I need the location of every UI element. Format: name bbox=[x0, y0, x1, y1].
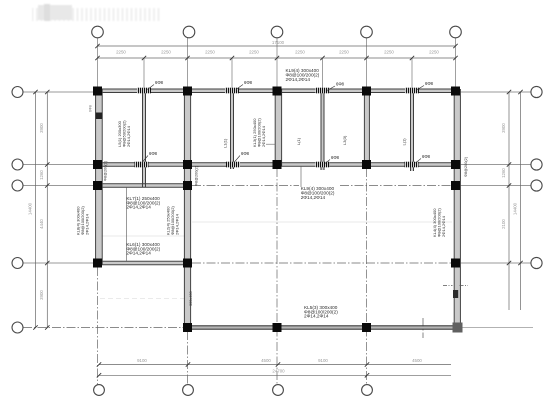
beam axis 5 (KL4) bbox=[454, 89, 460, 329]
secondary beam S3 extension bbox=[322, 58, 324, 89]
svg-text:2250: 2250 bbox=[161, 50, 171, 55]
leader KL3 to axis3 bbox=[266, 143, 275, 145]
svg-text:L3(3): L3(3) bbox=[342, 135, 347, 145]
rotated text KL2 bbox=[166, 206, 180, 235]
beam infill gray bbox=[93, 89, 460, 329]
svg-text:2Φ14,2Φ14: 2Φ14,2Φ14 bbox=[261, 125, 266, 147]
top dimension line overall bbox=[98, 46, 456, 58]
axis 3 top extension bbox=[276, 38, 278, 89]
svg-text:2Φ14,2Φ14: 2Φ14,2Φ14 bbox=[175, 213, 180, 235]
rotated text L5 bay1 bbox=[117, 120, 131, 147]
secondary beam S1 (L5) bbox=[143, 89, 146, 187]
secondary beam S4 extension bbox=[411, 58, 413, 89]
section mark on row E beam bbox=[422, 318, 424, 338]
svg-text:6Φ8: 6Φ8 bbox=[331, 155, 340, 160]
column D1 bbox=[93, 259, 102, 268]
axis 4 center line lower bbox=[366, 168, 368, 385]
row bubble A right bbox=[531, 86, 542, 97]
row D center line bbox=[192, 262, 452, 264]
top dimension ticks bbox=[95, 44, 457, 60]
svg-text:17100: 17100 bbox=[272, 40, 285, 45]
axis 1 center line lower bbox=[97, 267, 99, 385]
row bubble A left bbox=[12, 87, 23, 98]
secondary beam S1 extension bbox=[143, 58, 145, 89]
leader line text KL9b bbox=[300, 166, 302, 187]
axis bubble 1 bottom bbox=[94, 385, 105, 396]
stirrup cluster row B at S4 bbox=[405, 162, 419, 168]
svg-text:2Φ14,2Φ14: 2Φ14,2Φ14 bbox=[304, 314, 329, 319]
axis bubble 5 top bbox=[450, 26, 462, 38]
6phi8 label A-S1 bbox=[142, 80, 434, 164]
svg-text:9100: 9100 bbox=[318, 358, 328, 363]
leader line text KL7 bbox=[126, 187, 128, 261]
svg-text:4500: 4500 bbox=[261, 358, 271, 363]
column D2 bbox=[183, 259, 192, 268]
axis bubble 1 top bbox=[92, 26, 104, 38]
axis 4 top extension bbox=[366, 38, 368, 89]
axis 5 top extension bbox=[455, 38, 457, 89]
column A5 bbox=[451, 87, 460, 96]
svg-text:6Φ8: 6Φ8 bbox=[241, 151, 250, 156]
beam row B bbox=[93, 163, 460, 166]
rotated text KL4 bbox=[432, 208, 446, 237]
svg-text:2Φ14,2Φ14: 2Φ14,2Φ14 bbox=[85, 213, 90, 235]
faint slab line bottom-left bbox=[100, 298, 185, 300]
svg-text:6Φ8: 6Φ8 bbox=[244, 80, 253, 85]
stirrup cluster row A at S2 bbox=[225, 88, 239, 94]
section mark axis5 between D-E bbox=[443, 285, 468, 287]
svg-text:2Φ14,2Φ14: 2Φ14,2Φ14 bbox=[126, 205, 151, 210]
svg-text:2250: 2250 bbox=[249, 50, 259, 55]
axis 2 top extension bbox=[187, 38, 189, 89]
faint slab line left bay bbox=[99, 235, 186, 237]
beam axis 3 bbox=[275, 89, 281, 166]
row C right extension bbox=[459, 185, 531, 187]
stirrup cluster axis5 beam bbox=[453, 290, 458, 298]
secondary beam S3 (L3) bbox=[321, 89, 324, 170]
column A2 bbox=[183, 87, 192, 96]
left bay dim texts bbox=[28, 123, 45, 300]
text KL6 bbox=[126, 242, 160, 256]
dash-dot center lines bbox=[23, 168, 452, 385]
text KL7 bbox=[126, 196, 160, 210]
row C center line right segment bbox=[340, 185, 452, 187]
gray column E5 bbox=[453, 323, 463, 333]
axis bubble 2 bottom bbox=[183, 385, 194, 396]
beam axis 4 bbox=[364, 89, 369, 166]
axis bubble 2 top bbox=[183, 26, 195, 38]
beam row A (KL9) bbox=[93, 89, 460, 93]
bottom dimension line overall bbox=[99, 374, 451, 376]
row D left extension bbox=[23, 262, 94, 264]
stirrup cluster row B at S1 bbox=[135, 162, 149, 168]
row bubble B left bbox=[12, 159, 23, 170]
svg-text:2Φ14,2Φ14: 2Φ14,2Φ14 bbox=[301, 195, 326, 200]
axis 2 center line lower bbox=[187, 331, 189, 385]
text KL9 mid bbox=[301, 186, 335, 200]
svg-text:3900: 3900 bbox=[39, 123, 44, 133]
svg-text:2Φ14,2Φ14: 2Φ14,2Φ14 bbox=[441, 215, 446, 237]
svg-text:14400: 14400 bbox=[513, 202, 518, 215]
column A3 bbox=[273, 87, 282, 96]
column C5 bbox=[451, 181, 460, 190]
column A1 bbox=[93, 87, 102, 96]
beam row E (KL5) bbox=[183, 326, 460, 329]
text KL5 bbox=[304, 305, 338, 319]
stirrup cluster row A at S3 bbox=[316, 88, 330, 94]
row bubble E left bbox=[12, 322, 23, 333]
svg-text:2Φ14,2Φ14: 2Φ14,2Φ14 bbox=[126, 251, 151, 256]
stirrup cluster axis1 beam bbox=[96, 113, 103, 120]
row A right extension bbox=[459, 91, 531, 93]
column B5 bbox=[451, 160, 460, 169]
column C2 bbox=[183, 181, 192, 190]
row E right faint line bbox=[462, 327, 533, 329]
svg-text:2250: 2250 bbox=[429, 50, 439, 55]
svg-text:L1(1): L1(1) bbox=[223, 138, 228, 148]
svg-text:300x400: 300x400 bbox=[189, 291, 193, 306]
axis bubble 4 top bbox=[361, 26, 373, 38]
axis 3 center line lower bbox=[276, 168, 278, 385]
row bubble D left bbox=[12, 258, 23, 269]
svg-text:3900: 3900 bbox=[39, 290, 44, 300]
row bubble C right bbox=[531, 180, 542, 191]
row E center line left bbox=[23, 327, 183, 329]
beam axis 1 (KL8) bbox=[96, 89, 103, 265]
top dimension line bays bbox=[98, 57, 456, 59]
row bubble D right bbox=[531, 257, 542, 268]
stirrup cluster row B at S2 bbox=[226, 162, 240, 168]
right dimension ticks bbox=[507, 90, 523, 265]
beam axis 2 (KL2) bbox=[184, 89, 190, 329]
svg-text:6Φ8: 6Φ8 bbox=[422, 154, 431, 159]
svg-text:Φ8@200(2): Φ8@200(2) bbox=[104, 160, 108, 181]
stirrup cluster row A at S4 bbox=[405, 88, 419, 94]
column B2 bbox=[183, 160, 192, 169]
axis 1 top extension bbox=[97, 38, 99, 89]
rotated text KL3 bay3 bbox=[252, 118, 266, 147]
right bay dim texts bbox=[501, 123, 518, 229]
svg-text:2Φ14,2Φ14: 2Φ14,2Φ14 bbox=[126, 125, 131, 147]
left dimension ticks bbox=[33, 90, 49, 330]
beam row C (KL7) bbox=[93, 184, 192, 187]
column E4 bbox=[362, 323, 371, 332]
secondary beam S4 (L) bbox=[411, 89, 414, 171]
beams double lines bbox=[93, 89, 460, 329]
right dimension line bays bbox=[509, 92, 521, 310]
svg-text:1260: 1260 bbox=[501, 168, 506, 178]
axis bubble 4 bottom bbox=[362, 385, 373, 396]
svg-text:3900: 3900 bbox=[501, 123, 506, 133]
svg-text:6Φ8: 6Φ8 bbox=[149, 151, 158, 156]
column B3 bbox=[273, 160, 282, 169]
svg-text:2250: 2250 bbox=[116, 50, 126, 55]
secondary beam S2 extension bbox=[231, 58, 233, 89]
svg-text:2250: 2250 bbox=[205, 50, 215, 55]
row C left extension bbox=[23, 185, 94, 187]
left dimension line overall bbox=[36, 92, 48, 328]
row B left extension bbox=[23, 164, 94, 166]
svg-text:4440: 4440 bbox=[39, 219, 44, 229]
row bubble C left bbox=[12, 180, 23, 191]
row D right extension bbox=[459, 262, 531, 264]
svg-text:2100: 2100 bbox=[501, 219, 506, 229]
top bay dim texts bbox=[116, 50, 439, 55]
svg-text:L(1): L(1) bbox=[296, 137, 301, 145]
svg-text:6Φ8: 6Φ8 bbox=[336, 82, 345, 87]
svg-text:6Φ8: 6Φ8 bbox=[155, 80, 164, 85]
right dimension line overall bbox=[520, 92, 522, 310]
column B4 bbox=[362, 160, 371, 169]
column C1 bbox=[93, 181, 102, 190]
svg-text:2250: 2250 bbox=[339, 50, 349, 55]
rotated text KL8 bbox=[76, 206, 90, 235]
row bubble B right bbox=[531, 159, 542, 170]
beam row D (KL6) bbox=[93, 261, 192, 264]
svg-text:9100: 9100 bbox=[137, 358, 147, 363]
bottom bay dim texts bbox=[137, 358, 422, 363]
stirrup cluster row A at S1 bbox=[137, 88, 151, 94]
svg-text:1260: 1260 bbox=[39, 170, 44, 180]
axis bubble 3 bottom bbox=[273, 385, 284, 396]
column B1 bbox=[93, 160, 102, 169]
left dimension line bays bbox=[46, 92, 48, 328]
svg-text:4500: 4500 bbox=[412, 358, 422, 363]
column E2 bbox=[183, 323, 192, 332]
text KL9 top bbox=[286, 68, 320, 82]
svg-text:24700: 24700 bbox=[272, 369, 285, 374]
column E3 bbox=[273, 323, 282, 332]
row B right extension bbox=[459, 164, 531, 166]
column D5 bbox=[451, 259, 460, 268]
svg-text:Φ8@200(2): Φ8@200(2) bbox=[195, 165, 199, 186]
svg-text:2250: 2250 bbox=[295, 50, 305, 55]
svg-text:6Φ8: 6Φ8 bbox=[89, 105, 93, 112]
svg-text:2250: 2250 bbox=[384, 50, 394, 55]
stirrup cluster row B at S3 bbox=[316, 162, 330, 168]
svg-text:Φ8@200(2): Φ8@200(2) bbox=[464, 156, 468, 177]
faint slab line mid bbox=[192, 221, 452, 223]
axis bubble 3 top bbox=[271, 26, 283, 38]
secondary beam S2 (L1) bbox=[231, 89, 234, 169]
row A left extension bbox=[23, 91, 94, 93]
svg-text:L(1): L(1) bbox=[402, 138, 407, 146]
column A4 bbox=[362, 87, 371, 96]
svg-text:2Φ14,2Φ14: 2Φ14,2Φ14 bbox=[286, 77, 311, 82]
columns black squares bbox=[93, 87, 460, 333]
bottom dimension line bays bbox=[99, 365, 451, 376]
row C center line mid segment bbox=[192, 185, 299, 187]
svg-text:6Φ8: 6Φ8 bbox=[425, 81, 434, 86]
grid center/extension lines bbox=[23, 38, 533, 328]
svg-text:14400: 14400 bbox=[28, 202, 33, 215]
bottom dimension ticks bbox=[97, 362, 369, 377]
